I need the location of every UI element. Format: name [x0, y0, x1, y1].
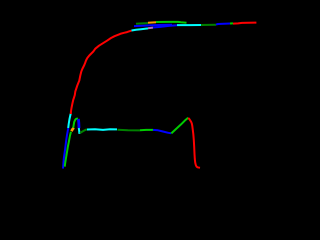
trace V2 upper strand (dark green) [136, 22, 148, 25]
trace V1 top end (red segment) [233, 23, 256, 24]
trace V4 settle (bright green flat) [140, 129, 153, 131]
trace V1 top (blue step) [216, 24, 230, 25]
trace V1 rising edge (cyan segment) [68, 114, 71, 129]
trace V4 pre-bump dip (blue) [153, 130, 171, 133]
trace V1 main knee (red segment) [71, 31, 132, 114]
trace V4 bump rise (bright green) [171, 118, 188, 134]
trace V2 upper strand (orange) [148, 21, 156, 24]
trace V4 undershoot dip (cyan) [78, 128, 81, 134]
trace V4 overshoot peak (green) [73, 119, 78, 128]
trace V1 top (cyan flat) [177, 24, 201, 26]
trace V2 upper strand (bright green) [156, 21, 187, 24]
trace V4 settle (cyan flat) [87, 128, 117, 131]
trace V1 top (violet segment) [148, 27, 153, 30]
trace V1 top (blue segment) [153, 25, 177, 27]
trace V4 overshoot fall (blue bar) [77, 119, 80, 128]
trace V1 top (green dot) [230, 22, 233, 24]
trace V4 recovery (dark green) [80, 130, 87, 134]
trace V4 settle (dark green flat) [118, 129, 141, 132]
trace V4 rising edge (green) [65, 132, 71, 167]
trace V1 rising edge (blue segment) [63, 128, 68, 169]
trace V1 top (cyan staircase) [132, 28, 149, 30]
trace V3 middle strand (blue) [134, 25, 172, 26]
trace V4 rising edge (orange segment) [71, 128, 73, 131]
trace V4 final fall (red) [188, 118, 200, 168]
trace V1 top (dark green flat) [201, 24, 216, 26]
